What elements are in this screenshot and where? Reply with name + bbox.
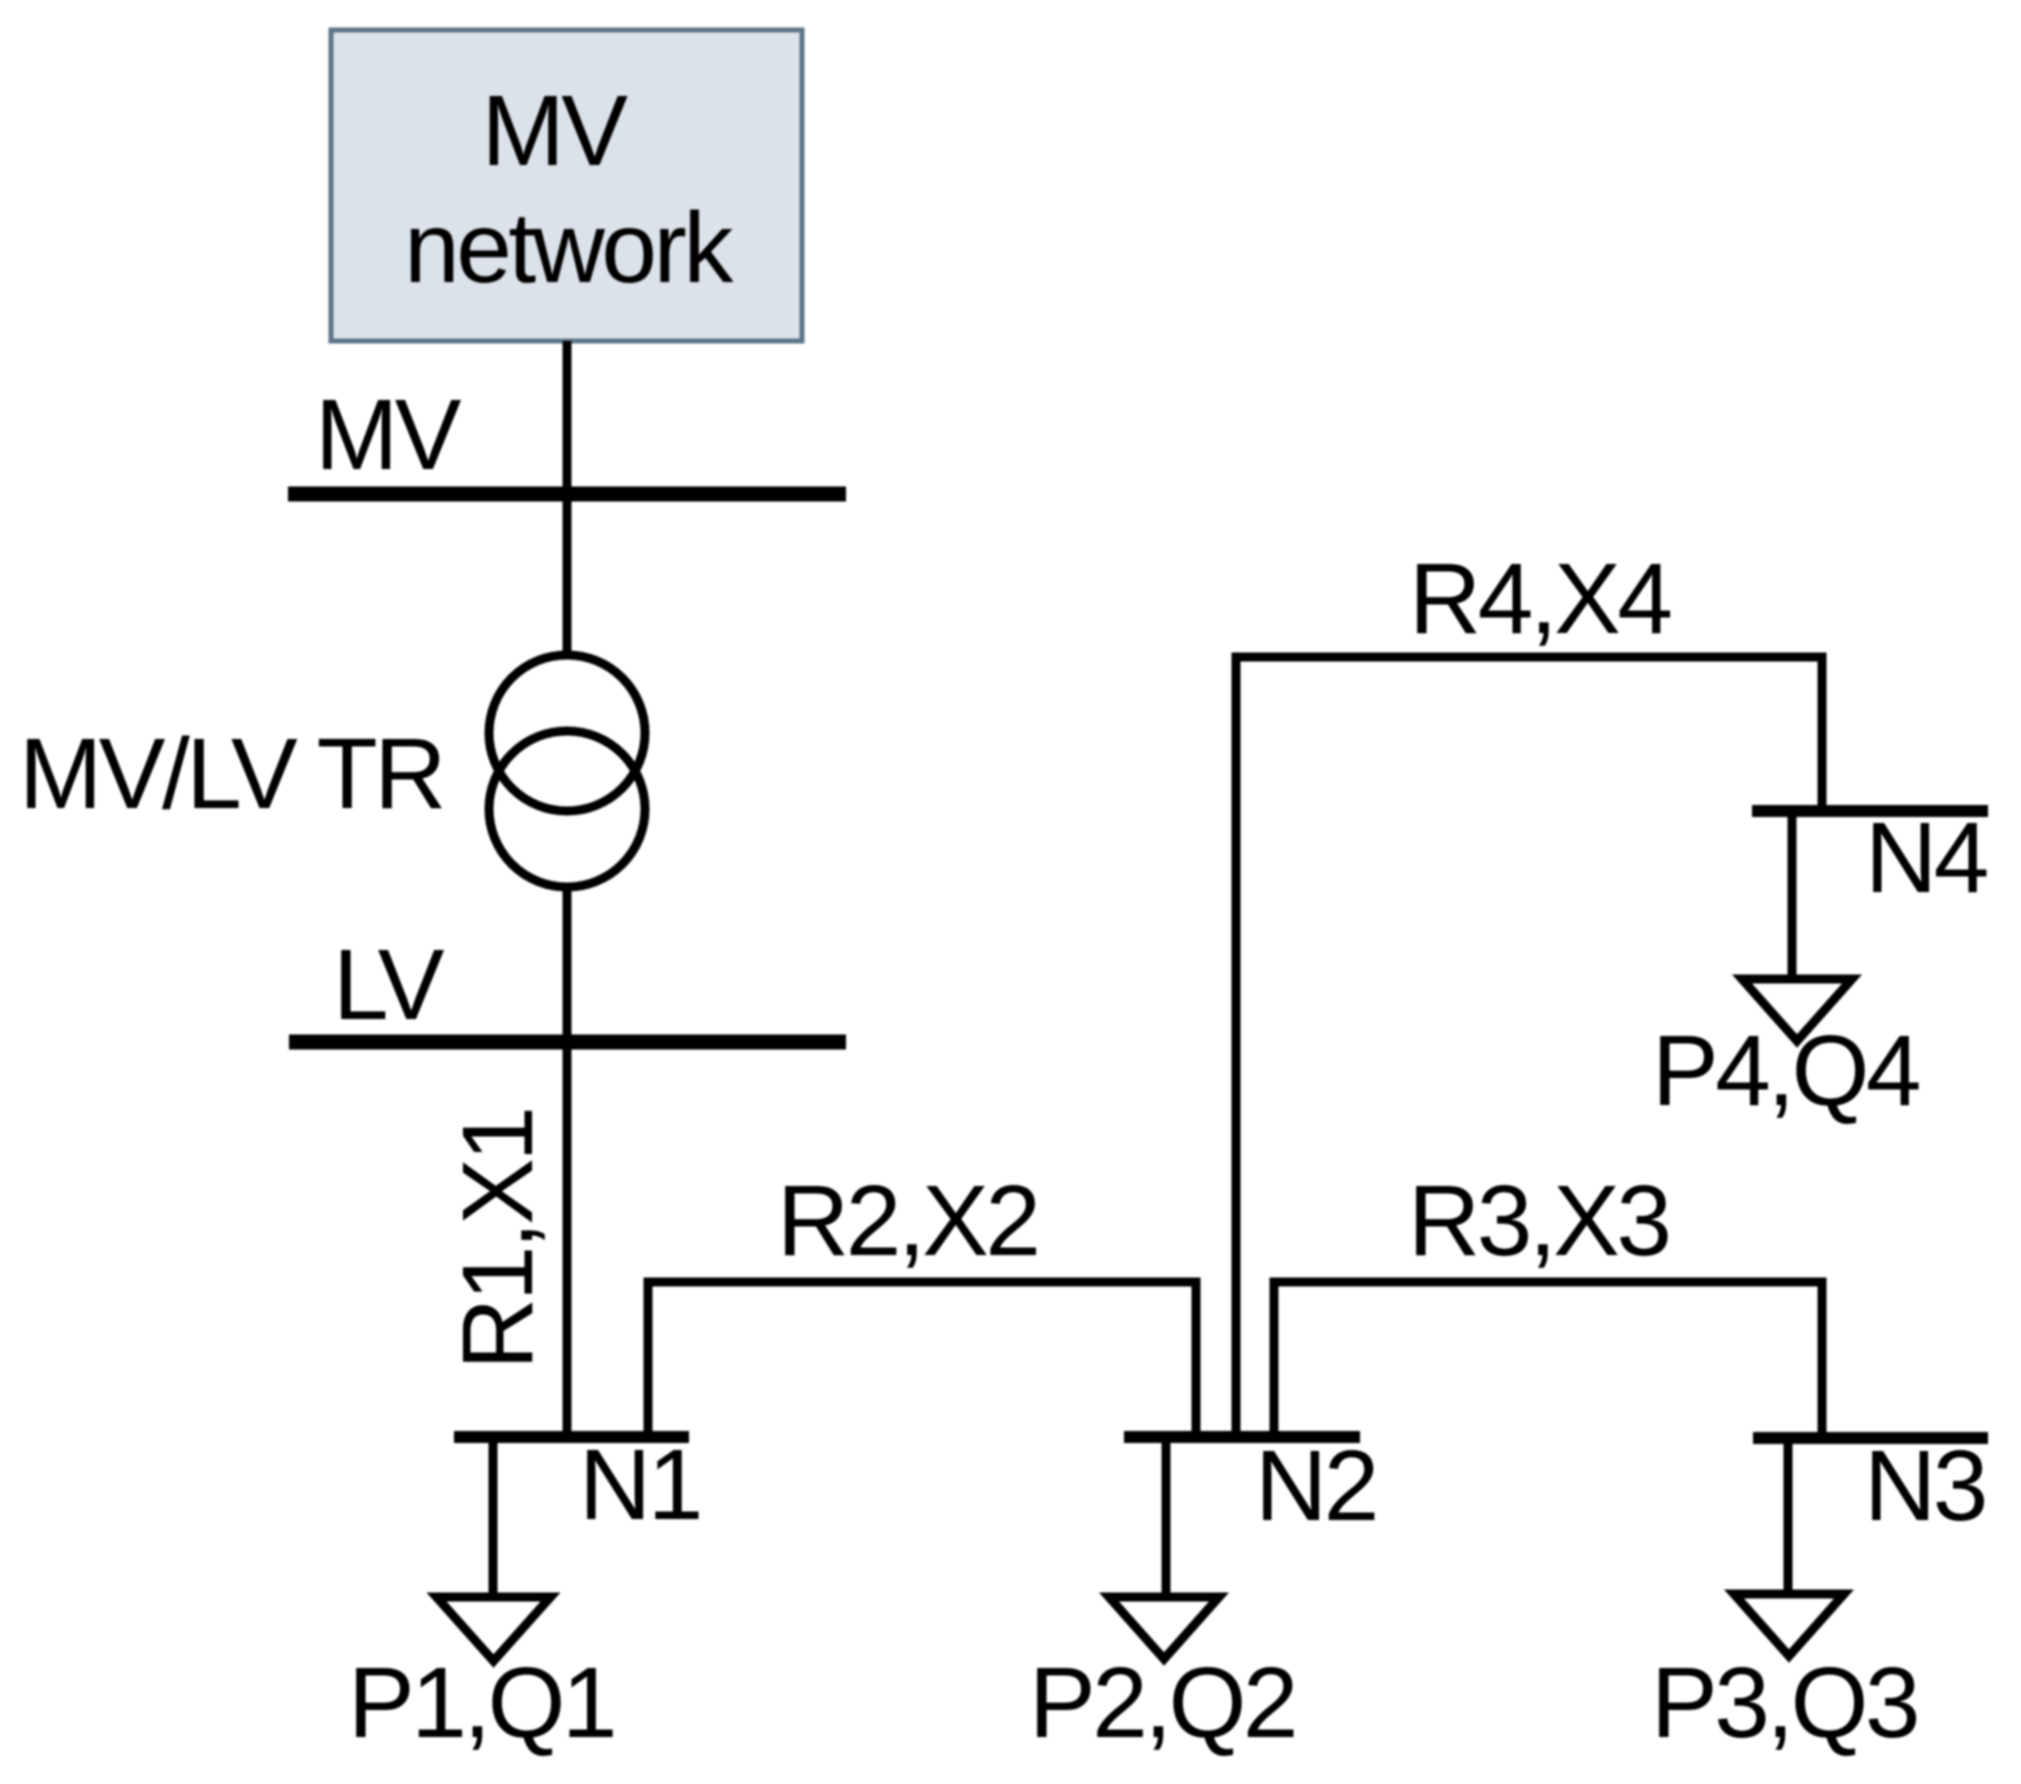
- node N1 busbar: [454, 1431, 689, 1443]
- wire R3,X3: N2 to N3: [1274, 1282, 1822, 1438]
- svg-text:P4,Q4: P4,Q4: [1652, 1015, 1919, 1127]
- svg-text:R1,X1: R1,X1: [442, 1110, 554, 1370]
- svg-text:N3: N3: [1864, 1430, 1985, 1542]
- MV busbar: [288, 487, 846, 502]
- load feeder wire at N4: [1788, 817, 1797, 980]
- svg-text:R2,X2: R2,X2: [777, 1165, 1037, 1277]
- svg-text:MV/LV TR: MV/LV TR: [19, 718, 443, 830]
- wire R1,X1: transformer to node N1 (through LV busbar): [563, 886, 572, 1437]
- wire R2,X2: N1 to N2: [648, 1282, 1196, 1437]
- svg-text:N2: N2: [1255, 1430, 1376, 1542]
- transformer MV/LV TR secondary winding: [489, 731, 645, 887]
- load arrow P3,Q3: [1734, 1594, 1844, 1656]
- wire: MV network box to transformer (through MV busbar): [563, 341, 572, 656]
- load feeder wire at N3: [1784, 1444, 1793, 1595]
- transformer MV/LV TR primary winding: [489, 655, 645, 811]
- node N2 busbar: [1124, 1431, 1360, 1443]
- svg-text:P1,Q1: P1,Q1: [348, 1647, 614, 1759]
- svg-text:N4: N4: [1865, 802, 1987, 914]
- svg-text:N1: N1: [579, 1429, 700, 1541]
- svg-text:P2,Q2: P2,Q2: [1029, 1647, 1295, 1759]
- LV busbar: [289, 1035, 846, 1050]
- svg-text:MV: MV: [315, 379, 462, 491]
- svg-text:R3,X3: R3,X3: [1408, 1165, 1668, 1277]
- svg-text:network: network: [404, 192, 734, 304]
- MV network source box: [331, 30, 802, 341]
- svg-text:R4,X4: R4,X4: [1409, 543, 1670, 655]
- load arrow P2,Q2: [1109, 1597, 1219, 1659]
- wire R4,X4: N2 to N4: [1236, 657, 1822, 1437]
- svg-text:LV: LV: [333, 929, 445, 1041]
- load arrow P1,Q1: [437, 1597, 551, 1661]
- load feeder wire at N1: [489, 1442, 498, 1597]
- load feeder wire at N2: [1162, 1442, 1171, 1597]
- node N3 busbar: [1753, 1432, 1988, 1444]
- node N4 busbar: [1752, 805, 1988, 817]
- svg-text:P3,Q3: P3,Q3: [1651, 1647, 1917, 1759]
- svg-text:MV: MV: [482, 75, 629, 187]
- load arrow P4,Q4: [1742, 979, 1852, 1041]
